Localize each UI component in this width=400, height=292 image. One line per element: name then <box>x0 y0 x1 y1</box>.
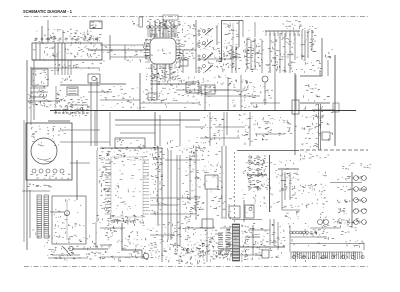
wire <box>76 160 78 200</box>
wire <box>351 172 353 228</box>
specks <box>100 230 161 262</box>
wire <box>150 213 195 215</box>
small box <box>205 175 218 189</box>
svg-text:SCHEMATIC DIAGRAM - 1: SCHEMATIC DIAGRAM - 1 <box>23 9 72 15</box>
specks <box>247 46 264 71</box>
connector box <box>88 74 100 83</box>
component cluster <box>186 81 216 96</box>
diode D103 diagonal <box>62 246 68 252</box>
small box <box>115 138 145 148</box>
small box <box>322 132 330 140</box>
Q63 base resistor + label <box>337 200 350 203</box>
wire <box>170 150 172 240</box>
wire <box>150 234 175 236</box>
wire <box>33 60 35 120</box>
wire <box>220 227 231 229</box>
wire <box>88 49 150 51</box>
small box <box>292 100 299 114</box>
transformer T102 box <box>26 123 72 180</box>
wire <box>72 248 108 250</box>
bus wire <box>265 30 300 32</box>
component cluster <box>285 211 300 219</box>
small frame <box>163 15 178 20</box>
wire <box>120 132 155 134</box>
wire <box>110 56 150 58</box>
wire bus <box>32 59 102 61</box>
diode row <box>35 38 37 40</box>
wire <box>100 147 162 149</box>
label specks <box>51 62 102 71</box>
wire <box>248 229 270 231</box>
specks <box>161 88 203 107</box>
degauss box L101 <box>32 43 102 60</box>
small box <box>262 250 269 258</box>
wire <box>321 38 323 76</box>
specks <box>178 248 210 265</box>
IC U301 left pin labels <box>99 154 112 213</box>
wire <box>96 78 98 146</box>
label row <box>302 122 323 130</box>
wire <box>210 89 240 91</box>
wire <box>176 89 230 91</box>
wire <box>60 141 110 143</box>
wire <box>70 162 90 164</box>
wire <box>164 64 166 80</box>
vertical wire <box>227 77 229 110</box>
wire <box>205 95 260 97</box>
diode array D201 <box>205 28 213 35</box>
wire <box>165 159 200 161</box>
component cluster <box>200 239 215 252</box>
wire <box>151 64 153 100</box>
wire <box>100 256 145 258</box>
secondary taps <box>32 169 36 173</box>
small box <box>333 103 339 112</box>
wire <box>100 227 125 229</box>
electrolytic caps row <box>147 26 150 29</box>
wire <box>206 190 208 262</box>
component cluster <box>257 237 286 248</box>
wire <box>159 115 161 146</box>
Q62 base resistor + label <box>337 187 351 192</box>
noise <box>206 230 261 262</box>
component <box>325 50 333 59</box>
wire <box>327 60 329 76</box>
wire <box>50 211 64 213</box>
wire <box>115 119 200 121</box>
component cluster <box>178 43 196 59</box>
U201 zigzag pins left <box>145 40 147 42</box>
specks <box>184 191 201 230</box>
grid symbol circles <box>249 156 251 158</box>
wire <box>154 112 156 146</box>
video block left dashed edge <box>234 152 236 222</box>
wire <box>139 73 141 110</box>
wire <box>30 91 48 93</box>
wire <box>300 75 322 77</box>
wire <box>115 124 180 126</box>
noise <box>101 149 198 216</box>
small box <box>202 219 213 228</box>
specks <box>305 223 358 246</box>
wire <box>26 60 28 250</box>
U201 left pins <box>145 40 150 62</box>
connector comb CN702 <box>291 252 362 259</box>
wire <box>281 170 283 210</box>
component grid <box>247 156 268 188</box>
cluster <box>167 140 205 153</box>
specks <box>98 146 163 160</box>
vertical wires right of U301 <box>176 155 178 247</box>
bus drop ticks <box>266 31 298 36</box>
long wire <box>290 243 364 245</box>
component row <box>281 186 295 191</box>
wire <box>95 222 97 248</box>
wire <box>220 249 231 251</box>
wire <box>140 102 200 104</box>
specks <box>200 226 231 259</box>
wire <box>96 150 98 222</box>
top dashed border line <box>24 16 368 18</box>
component cluster <box>279 114 297 135</box>
wire <box>182 50 184 73</box>
wire <box>150 197 200 199</box>
wire <box>185 227 215 229</box>
noise <box>152 77 212 106</box>
wire <box>109 112 111 146</box>
specks <box>301 60 322 74</box>
main vertical wire <box>269 155 271 212</box>
specks <box>302 95 333 118</box>
vertical connector CN401 <box>233 224 240 261</box>
transistor Q201 <box>262 76 268 82</box>
wire <box>161 148 163 262</box>
wire <box>154 20 156 37</box>
top labels <box>342 163 354 170</box>
U301 bottom labels <box>96 215 145 226</box>
component cluster <box>182 202 204 218</box>
wire <box>185 126 205 128</box>
wire <box>122 249 142 251</box>
small box <box>229 206 240 218</box>
bottom dashed border line <box>24 266 368 268</box>
wire <box>243 200 245 222</box>
wire <box>209 112 211 146</box>
resistor ladder RA101 <box>37 195 42 238</box>
wire <box>245 236 260 238</box>
wire <box>269 219 271 245</box>
wire <box>47 20 49 43</box>
wire <box>249 112 251 146</box>
wire <box>27 100 50 102</box>
pin circles <box>198 30 200 32</box>
specks <box>161 222 201 262</box>
specks on verticals <box>268 36 298 72</box>
wire <box>300 102 330 104</box>
specks <box>305 116 333 141</box>
label <box>302 203 313 208</box>
wire <box>231 46 233 73</box>
wire <box>250 102 280 104</box>
IF block box <box>221 21 223 62</box>
wire <box>167 150 169 240</box>
wire <box>215 233 222 235</box>
wire <box>295 75 297 110</box>
IC U201 body <box>150 38 176 64</box>
top band caps <box>217 48 238 72</box>
label row <box>108 218 137 223</box>
driver transistor Q62 <box>354 187 359 192</box>
wire <box>30 87 46 89</box>
wire <box>242 20 244 37</box>
component cluster <box>200 150 223 192</box>
label F101 <box>75 33 101 41</box>
wire <box>150 204 178 206</box>
coil windings inside L101 <box>35 43 37 60</box>
U201 pin labels <box>147 66 183 80</box>
driver transistor Q61 <box>354 176 359 181</box>
wire <box>60 84 100 86</box>
wire <box>240 246 285 248</box>
wire <box>48 120 70 122</box>
label row <box>300 231 317 236</box>
wire <box>29 190 31 238</box>
parts right top <box>182 23 196 39</box>
wire <box>30 67 32 125</box>
ladder rails <box>36 195 38 238</box>
dot row <box>301 143 318 147</box>
transistor pair Q701 <box>318 220 323 225</box>
wire <box>269 33 271 73</box>
dash row <box>54 109 86 111</box>
driver transistor Q63 <box>354 198 359 203</box>
components below U201 <box>150 72 180 85</box>
wire <box>62 30 64 43</box>
noise <box>105 224 198 262</box>
small box <box>245 205 254 218</box>
IC U301 body <box>111 157 143 217</box>
specks <box>269 41 297 72</box>
driver transistor Q65 <box>354 220 359 225</box>
component chain <box>185 152 201 187</box>
wire <box>23 120 25 242</box>
transistor Q401 <box>143 253 149 259</box>
wire <box>100 244 112 246</box>
component cluster <box>105 225 117 236</box>
tap labels <box>30 174 70 179</box>
specks <box>245 115 275 145</box>
CN401 pin labels <box>225 229 233 261</box>
wire <box>294 73 296 155</box>
component row above T101 <box>34 36 98 45</box>
winding arcs <box>37 158 54 162</box>
diode circles <box>203 30 206 33</box>
video block top edge <box>237 150 299 152</box>
wire <box>157 146 159 226</box>
IF block parts <box>223 23 239 59</box>
Q61 base resistor + label <box>338 176 351 180</box>
resistor R105 block <box>32 69 48 86</box>
wire <box>100 44 150 46</box>
wire <box>110 220 136 222</box>
wire <box>290 236 327 238</box>
capacitor bank above U201 <box>147 19 181 37</box>
specks <box>245 223 296 257</box>
capacitor C120 <box>65 211 70 216</box>
wire <box>100 99 140 101</box>
crystal X201 <box>180 60 188 66</box>
U201 bottom pins <box>151 64 175 69</box>
components above U201 <box>154 21 181 31</box>
wire <box>277 222 279 250</box>
specks <box>301 39 316 58</box>
vertical wire <box>204 85 206 110</box>
degauss leads <box>54 60 56 75</box>
specks <box>210 47 222 68</box>
cluster <box>282 171 299 181</box>
wire <box>189 155 191 200</box>
specks <box>47 235 77 259</box>
wire <box>310 227 340 229</box>
component <box>353 241 364 248</box>
resistor ladder RA102 <box>44 195 49 238</box>
narrow box <box>139 17 143 27</box>
small box <box>186 82 199 93</box>
specks <box>196 116 224 145</box>
wire <box>216 25 218 45</box>
vertical label <box>244 50 250 60</box>
U201 top pins <box>151 33 175 38</box>
wire <box>334 55 336 146</box>
dot row <box>305 84 320 92</box>
wire <box>100 83 126 85</box>
wire <box>70 104 88 106</box>
wire <box>240 254 262 256</box>
U201 label specks <box>143 37 153 60</box>
vertical IC block box <box>52 196 86 244</box>
wire <box>200 137 240 139</box>
U201 zigzag pins right <box>178 40 180 42</box>
wire <box>301 30 303 60</box>
wire <box>30 96 46 98</box>
U201 right pins <box>176 40 181 62</box>
component cluster <box>174 243 200 264</box>
component row <box>37 29 92 36</box>
SAW filter cluster <box>244 39 260 69</box>
wire <box>59 255 61 258</box>
wire <box>319 70 321 76</box>
left label column <box>317 172 328 228</box>
wire <box>48 257 88 259</box>
wire <box>109 35 111 60</box>
wire <box>141 250 143 258</box>
noise <box>242 156 300 213</box>
wire <box>150 83 196 85</box>
wire <box>255 133 285 135</box>
wire <box>252 225 254 255</box>
comb loops <box>292 255 295 258</box>
components below U201 <box>146 67 182 85</box>
wire <box>88 91 112 93</box>
component cluster <box>143 88 164 103</box>
specks <box>60 95 87 117</box>
specks <box>76 240 101 258</box>
Q64 base resistor + label <box>338 209 347 214</box>
main horizontal bus <box>50 110 356 112</box>
Q65 base resistor + label <box>338 220 350 225</box>
wire <box>232 219 262 221</box>
dashed separator <box>300 149 368 151</box>
component cluster <box>238 114 253 137</box>
wire <box>176 49 196 51</box>
wire <box>52 254 80 256</box>
arrow diagonals <box>207 29 211 33</box>
wire <box>121 223 123 250</box>
component row <box>248 184 269 189</box>
specks <box>28 87 51 108</box>
U301 top specks <box>100 155 161 165</box>
small box <box>201 85 215 94</box>
label row <box>284 20 302 29</box>
specks <box>101 86 145 108</box>
resistor hatch rows <box>218 233 223 251</box>
relay box RL101 <box>67 87 78 95</box>
marks <box>60 76 72 82</box>
small box <box>148 93 157 100</box>
wire <box>261 40 263 73</box>
specks <box>149 243 164 258</box>
wire <box>289 225 291 252</box>
wire <box>90 82 92 146</box>
dense block <box>216 252 233 259</box>
component cluster C106 <box>29 90 47 106</box>
parts column <box>243 80 255 108</box>
wire <box>247 174 267 176</box>
vertical wire <box>274 73 276 110</box>
wire <box>94 110 96 146</box>
winding dots <box>31 126 66 146</box>
U301 inner specks <box>115 164 140 213</box>
component cluster <box>215 75 237 85</box>
wire <box>284 172 286 200</box>
wire <box>60 129 100 131</box>
noise <box>33 34 96 61</box>
driver transistor Q64 <box>354 209 359 214</box>
cap column <box>56 91 61 101</box>
component cluster <box>299 25 316 37</box>
capacitor C121 <box>69 246 73 250</box>
wire <box>312 109 335 111</box>
wire <box>330 182 362 184</box>
vertical wire <box>226 112 228 135</box>
wire <box>318 104 320 150</box>
wire <box>22 190 50 192</box>
vertical wires <box>221 146 223 219</box>
wire <box>30 67 100 69</box>
component row <box>248 160 265 166</box>
dotted line <box>27 184 52 187</box>
specks <box>223 49 242 70</box>
specks <box>242 159 294 208</box>
wire <box>195 146 197 219</box>
noise <box>206 23 293 72</box>
specks <box>210 195 234 219</box>
wire <box>200 58 232 60</box>
wire <box>40 100 60 102</box>
label cluster <box>54 100 87 111</box>
wire <box>240 75 242 110</box>
specks <box>301 152 330 160</box>
